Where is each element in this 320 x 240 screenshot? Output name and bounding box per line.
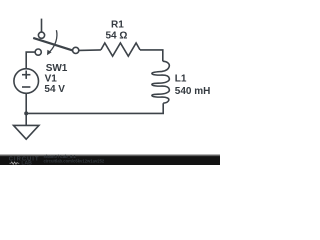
- voltage source plus sign: [22, 74, 30, 76]
- wire switch left terminal to source top: [26, 52, 35, 69]
- switch SW1 toggle arrow: [50, 30, 57, 51]
- wire junction to ground: [25, 113, 27, 125]
- svg-text:54 V: 54 V: [44, 84, 65, 95]
- svg-text:540 mH: 540 mH: [175, 86, 211, 97]
- switch SW1 right terminal: [73, 47, 79, 53]
- ground: [14, 125, 39, 139]
- voltage source V1: [14, 69, 39, 94]
- svg-text:L1: L1: [175, 74, 187, 85]
- voltage source minus sign: [22, 86, 30, 88]
- inductor L1: [152, 61, 169, 103]
- wire switch to resistor: [79, 49, 101, 52]
- svg-text:LAB: LAB: [21, 161, 32, 165]
- watermark logo squiggle: [10, 162, 20, 164]
- wire stub above switch: [41, 19, 43, 32]
- node junction dot: [24, 111, 28, 115]
- resistor R1: [101, 43, 140, 56]
- switch SW1 blade: [33, 38, 72, 51]
- svg-text:SW1: SW1: [46, 63, 68, 74]
- switch SW1 left terminal: [35, 49, 41, 55]
- switch SW1 top terminal: [38, 32, 44, 38]
- wire resistor to top-right corner: [140, 50, 163, 61]
- svg-text:R1: R1: [111, 20, 124, 31]
- wire inductor to bottom-right corner: [26, 103, 163, 113]
- svg-text:54 Ω: 54 Ω: [106, 31, 128, 42]
- wire source bottom to junction: [25, 93, 27, 113]
- svg-text:circuitlab.com/c6kv12w1av252: circuitlab.com/c6kv12w1av252: [44, 159, 105, 164]
